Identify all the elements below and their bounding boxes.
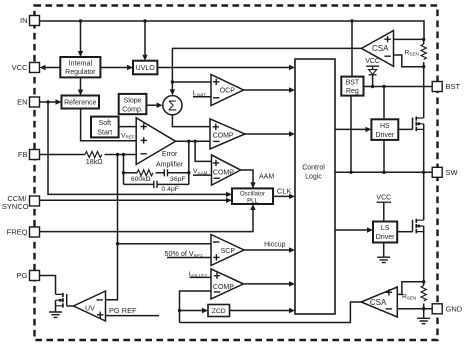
svg-text:BST: BST bbox=[346, 79, 360, 86]
wire Internal Regulator to UVLO bbox=[100, 67, 128, 69]
wire CSA2- / GND rail bbox=[397, 308, 432, 310]
svg-text:VCC: VCC bbox=[365, 58, 380, 65]
wire ZCD output to Control Logic bbox=[230, 310, 290, 312]
resistor 600k bbox=[137, 170, 153, 176]
arrowhead into summer left bbox=[157, 103, 163, 108]
wire Control Logic to LS Driver bbox=[335, 229, 367, 231]
wire Reference VREF output bbox=[81, 109, 137, 141]
node HSdriver/SW junction bbox=[382, 171, 385, 174]
block Control Logic bbox=[295, 59, 335, 314]
wire BST Reg to BST pin bbox=[364, 86, 433, 88]
wire CSA+ to RSEN top bbox=[394, 38, 424, 40]
svg-text:ZCD: ZCD bbox=[212, 308, 226, 315]
arrowhead into Reference top bbox=[78, 90, 83, 96]
resistor RSEN high side bbox=[421, 44, 426, 60]
wire EA output to COMP2+ bbox=[195, 141, 211, 161]
svg-text:RSEN: RSEN bbox=[405, 49, 419, 56]
wire BST rail to HS Driver bbox=[383, 87, 385, 120]
svg-text:IN: IN bbox=[20, 16, 28, 25]
wire RSEN stubs bbox=[423, 39, 425, 66]
wire UV- to FB sense bbox=[106, 299, 118, 301]
svg-text:Control: Control bbox=[302, 165, 325, 172]
wire OCP output to Control Logic bbox=[244, 89, 290, 91]
svg-text:CSA: CSA bbox=[370, 298, 387, 307]
node current-sense/OCP junction bbox=[171, 80, 174, 83]
wire COMP output to Control Logic bbox=[245, 133, 290, 135]
svg-text:SW: SW bbox=[446, 168, 459, 177]
svg-text:Start: Start bbox=[97, 129, 112, 136]
block LS Driver bbox=[373, 222, 397, 243]
wire SW rail bbox=[335, 171, 432, 173]
wire Slope Comp to summer bbox=[146, 104, 156, 106]
wire LS source to RSEN2 bbox=[423, 226, 425, 282]
node diode/BST junction bbox=[371, 85, 374, 88]
block Internal Regulator bbox=[60, 57, 100, 77]
arrowhead into ZCD bbox=[202, 308, 208, 313]
resistor RSEN low side bbox=[421, 286, 426, 302]
wire CSA- to RSEN bottom bbox=[394, 55, 424, 67]
node GND junction bbox=[422, 307, 425, 310]
pin IN bbox=[20, 16, 40, 26]
wire VAAM to COMP2- bbox=[193, 174, 212, 176]
block Oscillator PLL bbox=[232, 188, 273, 204]
pin CCM/SYNCO bbox=[2, 194, 40, 211]
wire FB to resistor bbox=[40, 154, 86, 156]
pin VCC bbox=[12, 63, 40, 73]
arrowhead into VCC pin bbox=[40, 65, 46, 70]
node FB sense junction bbox=[116, 153, 119, 156]
node EN junction bbox=[46, 100, 49, 103]
svg-text:Error: Error bbox=[162, 151, 178, 158]
svg-text:PG REF: PG REF bbox=[109, 306, 137, 315]
arrowhead into HS Driver bbox=[365, 127, 371, 132]
svg-text:AAM: AAM bbox=[259, 174, 274, 181]
wire HS source to SW bbox=[423, 124, 425, 173]
current sense amp CSA (high side) bbox=[362, 31, 394, 67]
wire PG FET source to ground bbox=[55, 300, 57, 312]
comparator COMP (valley) bbox=[211, 269, 243, 299]
arrowhead COMP into Control Logic bbox=[289, 131, 295, 136]
arrowhead UVLO into Control Logic bbox=[289, 65, 295, 70]
wire IN to BST Reg bbox=[351, 21, 353, 77]
block UVLO bbox=[133, 61, 157, 75]
node BSTReg/SW junction bbox=[349, 171, 352, 174]
svg-text:Σ: Σ bbox=[168, 98, 177, 114]
svg-text:RSEN: RSEN bbox=[402, 293, 416, 300]
node IN/UVLO junction bbox=[143, 19, 146, 22]
wire FB to SCP- bbox=[118, 243, 212, 245]
wire IVALLEY to valley COMP+ bbox=[190, 276, 212, 278]
wire compensation left leg bbox=[123, 155, 125, 185]
svg-text:HS: HS bbox=[380, 123, 390, 130]
resistor 18k bbox=[85, 152, 102, 158]
svg-text:Driver: Driver bbox=[376, 234, 395, 241]
wire compensation to 600k bbox=[124, 172, 138, 174]
wire EN down to Oscillator PLL bbox=[48, 102, 227, 194]
pin FREQ bbox=[7, 227, 40, 237]
svg-text:PG: PG bbox=[17, 271, 28, 280]
arrowhead into summer top bbox=[170, 89, 175, 95]
svg-text:36pF: 36pF bbox=[170, 176, 186, 183]
comparator COMP (AAM) bbox=[212, 155, 241, 185]
comparator SCP bbox=[211, 235, 244, 266]
summer sigma bbox=[163, 96, 182, 115]
arrowhead OCP into Control Logic bbox=[289, 87, 295, 92]
wire EN to Reference bbox=[40, 101, 56, 103]
ground (PG) bbox=[49, 312, 62, 317]
node EA output junction B bbox=[193, 140, 196, 143]
node EA output junction A bbox=[187, 140, 190, 143]
wire IN rail to RSEN bbox=[40, 21, 425, 39]
pin SW bbox=[432, 167, 458, 177]
wire CLK to Control Logic bbox=[273, 195, 290, 197]
wire 50%VREF to SCP+ bbox=[167, 257, 211, 259]
arrowhead into Oscillator PLL left upper bbox=[226, 192, 232, 197]
svg-text:GND: GND bbox=[446, 305, 463, 314]
wire HS Driver to SW bbox=[383, 140, 385, 172]
node RSEN2 top junction bbox=[422, 280, 425, 283]
wire CSA2 output bbox=[180, 302, 362, 323]
svg-text:COMP: COMP bbox=[213, 170, 234, 177]
svg-text:Regulator: Regulator bbox=[65, 69, 96, 76]
svg-text:VCC: VCC bbox=[12, 63, 28, 72]
svg-text:CSA: CSA bbox=[372, 44, 389, 53]
node IN/IntReg junction bbox=[79, 19, 82, 22]
wire FB sense down bbox=[106, 155, 118, 300]
node RSEN top junction bbox=[422, 38, 425, 41]
transistor LS MOSFET bbox=[413, 219, 424, 234]
wire PG pin to FET bbox=[40, 276, 56, 295]
arrowhead Hiccup into Control Logic bbox=[289, 247, 295, 252]
wire HS drain to RSEN bbox=[423, 67, 425, 118]
pin BST bbox=[432, 82, 460, 92]
wire 36pF to output leg bbox=[168, 172, 189, 174]
svg-text:PLL: PLL bbox=[247, 199, 258, 205]
arrowhead into Reference left bbox=[56, 99, 62, 104]
ground (power) bbox=[417, 318, 430, 323]
arrowhead into Oscillator PLL bottom bbox=[250, 204, 255, 210]
svg-text:Oscillator: Oscillator bbox=[240, 191, 265, 197]
pin FB bbox=[18, 150, 40, 160]
node FB/SCP junction bbox=[116, 242, 119, 245]
svg-text:Comp.: Comp. bbox=[122, 107, 143, 114]
op-amp Error Amplifier bbox=[136, 118, 184, 169]
node HSdriver/BST junction bbox=[382, 85, 385, 88]
wire CCM/SYNCO to Oscillator PLL bbox=[40, 199, 227, 201]
supply VCC bar (LS driver) bbox=[377, 201, 391, 203]
svg-text:VREF: VREF bbox=[121, 132, 135, 139]
wire RSEN2 stubs bbox=[423, 282, 425, 309]
svg-text:Driver: Driver bbox=[376, 132, 395, 139]
wire LS drain to SW bbox=[423, 172, 425, 220]
wire tap to ZCD bbox=[180, 310, 203, 312]
svg-text:Reg: Reg bbox=[346, 88, 359, 95]
arrowhead AAM into Oscillator PLL top bbox=[250, 182, 255, 188]
transistor PG MOSFET bbox=[56, 293, 67, 308]
wire Soft Start to Error Amplifier bbox=[119, 126, 137, 128]
svg-text:COMP: COMP bbox=[213, 284, 234, 291]
wire RSEN2 to ground bbox=[423, 309, 425, 319]
svg-text:Soft: Soft bbox=[99, 120, 112, 127]
capacitor 0.4pF bbox=[154, 181, 157, 188]
wire PG REF to UV+ bbox=[106, 315, 160, 317]
svg-text:UV: UV bbox=[85, 306, 95, 313]
wire Control Logic to HS Driver bbox=[335, 128, 366, 130]
svg-text:LS: LS bbox=[381, 225, 390, 232]
svg-text:OCP: OCP bbox=[220, 88, 236, 95]
transistor HS MOSFET bbox=[413, 117, 424, 132]
capacitor 36pF bbox=[164, 169, 167, 176]
wire UVLO to Control Logic bbox=[157, 67, 289, 69]
svg-text:18kΩ: 18kΩ bbox=[86, 157, 104, 166]
wire COMP2 output (AAM) bbox=[241, 170, 253, 183]
node IN/BSTReg junction bbox=[350, 19, 353, 22]
svg-text:Internal: Internal bbox=[69, 60, 93, 67]
svg-text:UVLO: UVLO bbox=[136, 65, 156, 72]
wire CSA top output to summer bbox=[172, 48, 361, 90]
svg-text:Slope: Slope bbox=[124, 97, 142, 104]
node compensation right junction bbox=[187, 171, 190, 174]
wire CSA2+ path bbox=[397, 282, 423, 295]
wire IN to UVLO bbox=[144, 21, 146, 56]
ground (LS driver) bbox=[377, 257, 390, 262]
wire BST Reg bottom to SW bbox=[350, 96, 352, 173]
arrowhead into Oscillator PLL left lower bbox=[226, 198, 232, 203]
supply VCC bar (bootstrap) bbox=[366, 66, 379, 69]
svg-text:Logic: Logic bbox=[305, 174, 322, 181]
wire HS Driver to HS gate bbox=[398, 128, 412, 130]
wire VCC to LS Driver bbox=[383, 202, 385, 221]
wire SCP output (Hiccup) to Control Logic bbox=[244, 249, 290, 251]
svg-text:COMP: COMP bbox=[213, 132, 234, 139]
svg-text:FB: FB bbox=[18, 150, 28, 159]
comparator OCP bbox=[211, 75, 244, 106]
block Slope Comp bbox=[119, 94, 147, 114]
wire CSA2 to valley COMP- bbox=[180, 291, 212, 323]
wire current sense to OCP+ bbox=[172, 81, 211, 83]
node ZCD tap junction bbox=[178, 309, 181, 312]
svg-text:FREQ: FREQ bbox=[7, 228, 28, 237]
svg-text:BST: BST bbox=[446, 82, 461, 91]
wire FREQ to Oscillator PLL bbox=[40, 210, 254, 232]
wire resistor to Error Amplifier inverting bbox=[105, 154, 137, 156]
arrowhead into UVLO top bbox=[142, 55, 147, 61]
arrowhead ZCD into Control Logic bbox=[289, 308, 295, 313]
arrowhead into LS Driver bbox=[367, 227, 373, 232]
wire valley COMP output to Control Logic bbox=[243, 283, 289, 285]
pin EN bbox=[17, 97, 39, 107]
arrowhead into Internal Regulator bbox=[78, 51, 83, 57]
svg-text:EN: EN bbox=[17, 98, 27, 107]
wire summer output to COMP bbox=[172, 115, 210, 127]
svg-text:Hiccup: Hiccup bbox=[264, 241, 286, 248]
block ZCD bbox=[208, 305, 230, 317]
svg-text:SYNCO: SYNCO bbox=[2, 202, 29, 211]
svg-text:SCP: SCP bbox=[221, 248, 236, 255]
wire Internal Regulator to Reference bbox=[80, 77, 82, 90]
block Soft Start bbox=[91, 117, 119, 138]
current sense amp CSA (low side) bbox=[361, 287, 397, 317]
node FB compensation junction bbox=[122, 153, 125, 156]
comparator UV bbox=[74, 291, 106, 321]
svg-text:Reference: Reference bbox=[64, 100, 96, 107]
wire LS Driver to LS gate bbox=[397, 231, 412, 233]
node RSEN bottom junction bbox=[422, 65, 425, 68]
svg-text:VCC: VCC bbox=[376, 195, 391, 202]
pin GND bbox=[432, 304, 463, 314]
wire Internal Regulator to VCC pin bbox=[45, 67, 61, 69]
svg-text:600kΩ: 600kΩ bbox=[131, 176, 151, 183]
wire 0.4pF left segment bbox=[124, 183, 154, 185]
wire Error Amplifier output bbox=[176, 140, 210, 142]
svg-text:0.4pF: 0.4pF bbox=[162, 186, 179, 193]
arrowhead valley COMP into Control Logic bbox=[289, 281, 295, 286]
wire UV output to PG gate bbox=[67, 305, 74, 307]
node FET/SW junction bbox=[422, 171, 425, 174]
arrowhead CLK into Control Logic bbox=[289, 194, 295, 199]
wire 0.4pF right segment bbox=[157, 183, 189, 185]
block Reference bbox=[62, 96, 100, 109]
pin PG bbox=[17, 271, 40, 281]
wire ILIMIT to OCP- bbox=[193, 96, 211, 98]
comparator COMP (PWM) bbox=[210, 119, 245, 149]
block BST Reg bbox=[341, 77, 363, 96]
wire compensation right leg bbox=[188, 141, 190, 184]
block HS Driver bbox=[371, 119, 398, 140]
arrowhead into UVLO left bbox=[127, 65, 133, 70]
wire LS Driver to ground bbox=[383, 243, 385, 258]
wire 600k to 36pF bbox=[156, 172, 165, 174]
svg-text:Amplifier: Amplifier bbox=[156, 161, 184, 168]
wire IN to Internal Regulator bbox=[80, 21, 82, 52]
node compensation left junction bbox=[122, 171, 125, 174]
wire diode to BST rail bbox=[372, 75, 374, 87]
diode bootstrap bbox=[369, 70, 377, 75]
